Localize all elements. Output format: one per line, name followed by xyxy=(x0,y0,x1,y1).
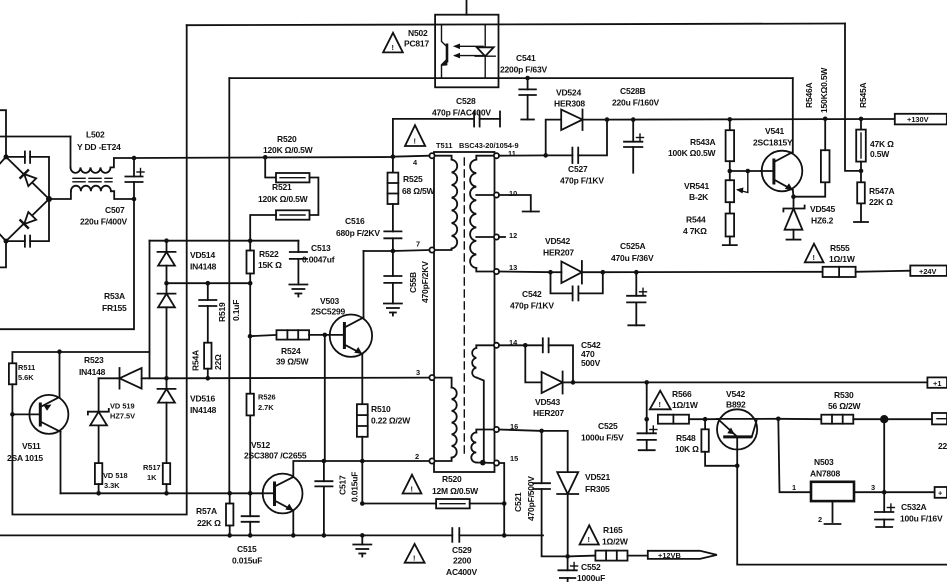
node R524 to V503 base xyxy=(323,333,328,338)
inductor L502 (common-mode choke) xyxy=(71,137,135,200)
wire output junction down to pin3 xyxy=(883,419,885,492)
svg-text:3: 3 xyxy=(871,483,875,492)
svg-text:V511: V511 xyxy=(22,441,41,451)
wire +130V rail xyxy=(607,118,895,121)
wire pin14 run xyxy=(499,344,525,346)
svg-text:PC817: PC817 xyxy=(404,39,429,49)
wire hot-ground rail bottom xyxy=(0,534,452,536)
svg-text:R545A: R545A xyxy=(858,82,868,108)
svg-text:VD514: VD514 xyxy=(190,250,215,260)
svg-text:R510: R510 xyxy=(371,404,391,414)
svg-text:56 Ω/2W: 56 Ω/2W xyxy=(828,401,862,411)
node VD542 out xyxy=(601,270,606,275)
node VD516 top xyxy=(164,376,169,381)
pin 7 xyxy=(429,247,434,252)
node R543A top xyxy=(728,117,733,122)
node R57A bottom xyxy=(227,533,232,538)
transformer body T511 BSC43-20/1054-9 xyxy=(434,152,495,472)
resistor R545A 47K 0.5W xyxy=(856,119,866,171)
capacitor C516 680p F/2KV xyxy=(384,231,401,251)
svg-text:120K Ω/0.5W: 120K Ω/0.5W xyxy=(263,145,314,155)
svg-text:11: 11 xyxy=(508,149,516,158)
pin 3 xyxy=(429,375,434,380)
svg-text:22Ω: 22Ω xyxy=(213,354,223,370)
diode VD514 IN4148 xyxy=(158,241,176,284)
capacitor C507 electrolytic xyxy=(125,158,144,199)
wire VD514 top rail xyxy=(150,240,299,242)
wire pin7 to V503 collector xyxy=(364,250,430,251)
svg-text:C525A: C525A xyxy=(620,241,646,251)
node R522 top xyxy=(248,238,253,243)
potentiometer VR541 B-2K xyxy=(726,171,748,214)
node VD543 out xyxy=(571,380,576,385)
wire base-winding line y378 to pin3 xyxy=(167,377,430,380)
svg-text:R525: R525 xyxy=(403,174,423,184)
diode R523 IN4148 xyxy=(99,368,167,389)
svg-text:C55B: C55B xyxy=(408,272,418,293)
node V512 emitter bottom xyxy=(291,533,296,538)
wire pin15 column xyxy=(499,463,504,535)
node C507 top xyxy=(132,156,137,161)
node VD514 top xyxy=(164,238,169,243)
diode VD521 FR305 xyxy=(542,431,579,557)
wire base column down to feedback run xyxy=(12,25,186,514)
zener VD545 HZ6.2 xyxy=(783,197,804,240)
flag +24V xyxy=(910,266,947,276)
svg-text:+24V: +24V xyxy=(919,267,937,276)
svg-text:VD545: VD545 xyxy=(810,204,835,214)
resistor R517 1K xyxy=(163,463,170,493)
svg-text:C525: C525 xyxy=(598,421,618,431)
flag +12VB xyxy=(648,551,717,560)
node pin15 column ground rail xyxy=(502,533,507,538)
svg-text:!: ! xyxy=(411,485,413,494)
wire opto bottom run xyxy=(228,78,230,493)
svg-text:N503: N503 xyxy=(814,457,834,467)
capacitor C525A 470u F/36V xyxy=(627,272,646,325)
resistor R544 4.7K xyxy=(723,214,737,246)
flag +16V (clipped) xyxy=(927,377,947,387)
node 47K / R547A xyxy=(859,169,864,174)
svg-text:R519: R519 xyxy=(217,302,227,322)
svg-text:470p F/1KV: 470p F/1KV xyxy=(510,301,554,311)
node main output junction (large) xyxy=(880,415,888,423)
svg-text:1: 1 xyxy=(792,483,796,492)
wire +16V line xyxy=(573,381,927,383)
capacitor C513 xyxy=(290,241,307,285)
svg-text:150KΩ0.5W: 150KΩ0.5W xyxy=(819,67,829,113)
svg-text:R57A: R57A xyxy=(196,506,217,516)
wire V541 base xyxy=(730,170,774,172)
capacitor C525 1000u F/5V xyxy=(638,426,657,450)
node rail / R525 top xyxy=(391,154,396,159)
wire down to R566 xyxy=(646,382,648,433)
diode VD543 HER207 xyxy=(525,345,573,393)
node pin11/C527 xyxy=(543,153,548,158)
diode VD515 (middle, unlabelled) xyxy=(158,283,176,378)
capacitor across upper bridge arm xyxy=(6,152,49,200)
capacitor C528 470p F/AC400V xyxy=(393,112,500,157)
svg-text:HER207: HER207 xyxy=(543,248,574,258)
svg-text:1000u F/5V: 1000u F/5V xyxy=(581,433,624,443)
wire R524 node down to V512 collector node xyxy=(324,335,326,461)
node 12M right xyxy=(502,501,507,506)
svg-text:1Ω/2W: 1Ω/2W xyxy=(602,537,629,547)
node C507 bottom xyxy=(132,197,137,202)
node VD521 / C552 / R165 xyxy=(565,554,570,559)
capacitor C532A 100u F/16V xyxy=(875,492,894,527)
wire stub junction to base winding line xyxy=(149,352,151,378)
svg-text:R547A: R547A xyxy=(869,186,895,196)
svg-text:R54A: R54A xyxy=(191,350,201,371)
capacitor across lower bridge arm xyxy=(6,199,49,247)
diode D1 (upper-right arm of bridge) xyxy=(20,169,37,186)
capacitor C515 0.015uF xyxy=(242,493,259,535)
svg-text:R521: R521 xyxy=(272,182,292,192)
svg-text:500V: 500V xyxy=(581,358,601,368)
svg-text:4 7KΩ: 4 7KΩ xyxy=(683,226,707,236)
pin 12 xyxy=(494,234,499,239)
node R524 feed xyxy=(248,334,253,339)
transistor V541 2SC1815Y xyxy=(761,78,802,197)
node C525A xyxy=(634,270,639,275)
resistor R510 0.22ohm/2W xyxy=(357,404,368,503)
wire bridge right corner to L502 top xyxy=(49,191,71,199)
svg-text:R548: R548 xyxy=(676,433,696,443)
svg-text:IN4148: IN4148 xyxy=(190,405,217,415)
svg-text:470p F/1KV: 470p F/1KV xyxy=(560,176,604,186)
svg-text:470pF/500V: 470pF/500V xyxy=(526,476,536,521)
node R548 top xyxy=(703,417,708,422)
node 47K top xyxy=(859,117,864,122)
capacitor C55B 470pF/2KV xyxy=(384,251,401,304)
svg-text:Y DD -ET24: Y DD -ET24 xyxy=(77,142,121,152)
node bridge right xyxy=(46,196,52,202)
node R510 column to ground xyxy=(360,533,365,538)
svg-text:68 Ω/5W: 68 Ω/5W xyxy=(402,186,436,196)
svg-text:10: 10 xyxy=(509,189,517,198)
node wiper junction xyxy=(746,169,751,174)
svg-text:VD524: VD524 xyxy=(556,88,581,98)
wire R521/R522 column down xyxy=(249,283,251,394)
primary winding pins 3-2 xyxy=(434,378,457,461)
svg-text:C516: C516 xyxy=(345,216,365,226)
pin 4 xyxy=(429,153,434,158)
svg-text:22K Ω: 22K Ω xyxy=(869,197,893,207)
ground below C55B xyxy=(384,304,402,316)
svg-text:C528: C528 xyxy=(456,96,476,106)
wire pin11 run xyxy=(499,154,546,156)
node R517 bottom xyxy=(164,491,169,496)
capacitor C542 470p F/1KV (parallel) xyxy=(551,272,603,300)
wire riser to VD524 xyxy=(546,120,562,156)
svg-text:1K: 1K xyxy=(147,473,157,482)
svg-text:B-2K: B-2K xyxy=(689,192,709,202)
svg-text:C529: C529 xyxy=(452,545,472,555)
resistor R526 2.7K xyxy=(247,394,254,494)
svg-text:470pF/2KV: 470pF/2KV xyxy=(420,261,430,303)
svg-text:1000uF: 1000uF xyxy=(577,573,605,582)
resistor R57A 22K xyxy=(226,493,233,535)
svg-text:220u F/160V: 220u F/160V xyxy=(612,98,659,108)
wire sense line from top run xyxy=(845,24,861,171)
capacitor C552 1000uF xyxy=(558,556,577,582)
capacitor C527 470p F/1KV (parallel) xyxy=(546,120,607,163)
bridge rectifier diamond xyxy=(0,157,49,241)
svg-text:!: ! xyxy=(392,43,394,52)
svg-text:C513: C513 xyxy=(311,243,331,253)
wire VD514 feed corner xyxy=(12,241,149,364)
transistor V503 2SC5299 xyxy=(325,251,372,404)
svg-text:2200: 2200 xyxy=(453,556,472,566)
pin 13 xyxy=(494,269,499,274)
svg-text:22K Ω: 22K Ω xyxy=(197,518,221,528)
node R522 bottom xyxy=(248,281,253,286)
svg-text:FR305: FR305 xyxy=(585,484,610,494)
optocoupler N502 PC817 xyxy=(435,0,498,87)
wire AC input stub top-left xyxy=(0,110,6,157)
wire pin2 line xyxy=(324,460,430,462)
node R57A top xyxy=(227,491,232,496)
svg-text:0.015uF: 0.015uF xyxy=(350,472,360,502)
resistor VD518 3.3K xyxy=(95,463,102,493)
svg-text:R543A: R543A xyxy=(690,137,716,147)
resistor R524 39ohm/5W xyxy=(250,330,325,339)
capacitor C542 470 500V (series, parallel with VD543) xyxy=(525,338,573,382)
resistor R555 1ohm/1W xyxy=(823,267,911,277)
capacitor 0.1uF (R519 label) xyxy=(199,283,216,343)
wire 12M feed xyxy=(362,503,436,505)
svg-text:HER207: HER207 xyxy=(533,408,564,418)
svg-text:!: ! xyxy=(813,253,815,262)
secondary winding pins 11-13 xyxy=(470,156,494,272)
capacitor C517 0.015uF xyxy=(315,461,332,535)
svg-text:2200p F/63V: 2200p F/63V xyxy=(500,65,547,75)
wire V542 down to bottom-right rail xyxy=(737,466,947,565)
node C515 top xyxy=(248,491,253,496)
regulator N503 AN7808 xyxy=(811,482,884,524)
diode VD542 HER207 xyxy=(551,261,603,284)
resistor R54A 22ohm xyxy=(204,343,211,379)
wire C507 column down to lower-left return xyxy=(0,199,134,329)
core dashed line xyxy=(463,158,465,454)
svg-text:C528B: C528B xyxy=(620,86,646,96)
node V511 emitter top xyxy=(57,349,62,354)
svg-text:3: 3 xyxy=(416,368,420,377)
svg-text:2SC3807 /C2655: 2SC3807 /C2655 xyxy=(244,451,307,461)
svg-text:R520: R520 xyxy=(442,474,462,484)
node C515 bottom xyxy=(248,533,253,538)
svg-text:0.1uF: 0.1uF xyxy=(231,300,241,321)
wire bridge bottom to left edge xyxy=(0,241,6,267)
svg-text:100u F/16V: 100u F/16V xyxy=(900,514,943,524)
resistor R530 56ohm/2W xyxy=(778,415,932,424)
wire V542 pass line xyxy=(705,418,778,420)
svg-text:VD 518: VD 518 xyxy=(103,471,128,480)
svg-text:470p F/AC400V: 470p F/AC400V xyxy=(432,108,491,118)
svg-text:2SC1815Y: 2SC1815Y xyxy=(753,138,793,148)
warning triangle near pin2 xyxy=(403,475,422,494)
svg-text:2: 2 xyxy=(818,515,822,524)
resistor R520 12M xyxy=(436,499,504,508)
wire rail to pin4 xyxy=(393,156,430,157)
node C542(470) in xyxy=(523,343,528,348)
warning triangle N502 xyxy=(383,33,403,53)
svg-text:10K Ω: 10K Ω xyxy=(675,444,699,454)
svg-text:0.22 Ω/2W: 0.22 Ω/2W xyxy=(371,416,411,426)
svg-text:3.3K: 3.3K xyxy=(104,481,120,490)
svg-text:V541: V541 xyxy=(765,126,785,136)
wire to C525A / R555 xyxy=(603,271,823,273)
svg-text:AC400V: AC400V xyxy=(446,567,477,577)
svg-text:12: 12 xyxy=(509,231,517,240)
transistor V511 2SA1015 xyxy=(12,352,68,494)
wire V511 collector to V512 base line xyxy=(61,492,283,494)
svg-text:C515: C515 xyxy=(237,544,257,554)
node pin7 wire xyxy=(391,249,396,254)
svg-text:R546A: R546A xyxy=(804,82,814,108)
svg-text:C552: C552 xyxy=(581,562,601,572)
secondary winding pins 16-15 xyxy=(471,430,494,464)
transistor V542 B892 xyxy=(717,409,757,466)
resistor R521 120K xyxy=(250,210,309,240)
svg-text:R544: R544 xyxy=(686,215,706,225)
node C541 top xyxy=(525,76,530,81)
node C517 bottom xyxy=(322,533,327,538)
svg-text:N502: N502 xyxy=(408,28,428,38)
wire opto top run xyxy=(187,24,845,26)
node V542 base bottom xyxy=(735,464,740,469)
warning triangle near C529 xyxy=(405,544,425,563)
svg-text:7: 7 xyxy=(416,240,420,249)
node VD542 in xyxy=(548,270,553,275)
node V541 emitter xyxy=(791,194,796,199)
node VD518 bottom xyxy=(96,491,101,496)
svg-text:2: 2 xyxy=(415,452,419,461)
diode VD524 HER308 xyxy=(561,110,607,131)
warning triangle near R566 xyxy=(650,391,671,410)
wire DC rail to left edge xyxy=(0,136,71,138)
svg-text:R530: R530 xyxy=(834,390,854,400)
svg-text:C517: C517 xyxy=(338,475,348,495)
svg-text:C532A: C532A xyxy=(901,502,927,512)
svg-text:15K Ω: 15K Ω xyxy=(258,260,282,270)
resistor R522 15K xyxy=(247,241,254,284)
resistor R548 10K xyxy=(701,419,737,466)
node C521 column xyxy=(539,429,544,434)
wire pin13 run / +24V line xyxy=(499,271,551,274)
capacitor C541 2200p F/63V xyxy=(519,78,536,120)
secondary winding pins 14-16 xyxy=(472,345,494,462)
svg-text:0.5W: 0.5W xyxy=(870,149,890,159)
svg-text:!: ! xyxy=(588,535,590,544)
svg-text:+12VB: +12VB xyxy=(658,551,681,560)
resistor R525 68ohm/5W xyxy=(388,157,399,232)
svg-text:0.0047uf: 0.0047uf xyxy=(302,255,335,265)
node R566 / C525 xyxy=(644,417,649,422)
svg-text:0.015uF: 0.015uF xyxy=(232,556,262,566)
node V511 base column xyxy=(10,412,15,417)
svg-text:!: ! xyxy=(659,400,661,409)
svg-text:R165: R165 xyxy=(603,525,623,535)
pin 2 xyxy=(429,458,434,463)
svg-text:1Ω/1W: 1Ω/1W xyxy=(672,400,699,410)
node rail R520 tap xyxy=(263,155,268,160)
svg-text:R526: R526 xyxy=(258,393,276,402)
wire emitter to R546A xyxy=(794,182,826,196)
diode D2 (lower-right arm of bridge) xyxy=(20,211,37,228)
pin 10 xyxy=(494,192,499,197)
diode VD516 IN4148 xyxy=(158,378,176,463)
svg-text:13: 13 xyxy=(509,263,517,272)
svg-text:R511: R511 xyxy=(18,363,35,372)
node R510 / pin2 wire xyxy=(360,459,365,464)
node 0.1uF cap top xyxy=(206,281,211,286)
pin12 stub xyxy=(499,236,505,238)
svg-text:C541: C541 xyxy=(516,53,536,63)
node C517 top xyxy=(322,459,327,464)
svg-text:R522: R522 xyxy=(259,249,279,259)
capacitor C528B 220u F/160V xyxy=(624,120,644,173)
svg-text:IN4148: IN4148 xyxy=(190,262,217,272)
svg-text:+1: +1 xyxy=(933,379,941,388)
wire pin3 to flag xyxy=(884,491,934,493)
svg-text:47K Ω: 47K Ω xyxy=(870,139,894,149)
resistor R520 120K xyxy=(265,157,318,215)
svg-text:+: + xyxy=(938,489,943,498)
resistor R566 1ohm/1W xyxy=(658,415,705,424)
node VD514 bottom xyxy=(164,281,169,286)
svg-text:VD542: VD542 xyxy=(545,236,570,246)
svg-text:2.7K: 2.7K xyxy=(258,403,274,412)
flag +130V xyxy=(895,114,947,125)
svg-text:C542: C542 xyxy=(522,289,542,299)
wire main rail y157 xyxy=(134,157,393,158)
pin 15 xyxy=(494,460,499,465)
svg-text:22: 22 xyxy=(938,441,947,451)
wire to N503 pin 1 xyxy=(778,419,811,492)
svg-text:FR155: FR155 xyxy=(102,303,127,313)
resistor R547A 22K xyxy=(854,171,868,222)
warning triangle near pin4 xyxy=(405,125,425,146)
svg-text:120K Ω/0.5W: 120K Ω/0.5W xyxy=(258,194,309,204)
svg-text:R520: R520 xyxy=(277,134,297,144)
transistor V512 2SC3807/C2655 xyxy=(262,461,324,535)
capacitor C529 2200 AC400V (in ground rail) xyxy=(452,528,543,542)
node R520 12M column xyxy=(360,501,365,506)
node winding common xyxy=(480,460,486,466)
resistor R511 xyxy=(9,363,16,414)
svg-text:R53A: R53A xyxy=(104,291,125,301)
wire pin16 run xyxy=(499,430,542,431)
svg-text:C507: C507 xyxy=(105,205,125,215)
svg-text:1Ω/1W: 1Ω/1W xyxy=(829,254,856,264)
node VD524 out xyxy=(605,117,610,122)
svg-text:VD543: VD543 xyxy=(535,397,560,407)
primary winding pins 4-7 xyxy=(434,156,457,250)
svg-text:470u F/36V: 470u F/36V xyxy=(611,253,654,263)
svg-text:AN7808: AN7808 xyxy=(810,469,840,479)
svg-text:HER308: HER308 xyxy=(554,99,585,109)
ground below C513 xyxy=(289,285,307,297)
node N503 pin1 column xyxy=(776,417,781,422)
svg-text:5.6K: 5.6K xyxy=(18,373,34,382)
svg-text:39 Ω/5W: 39 Ω/5W xyxy=(276,357,310,367)
svg-text:IN4148: IN4148 xyxy=(79,367,106,377)
svg-text:2SA 1015: 2SA 1015 xyxy=(7,453,43,463)
node R543A bottom xyxy=(728,169,733,174)
svg-text:R524: R524 xyxy=(281,346,301,356)
